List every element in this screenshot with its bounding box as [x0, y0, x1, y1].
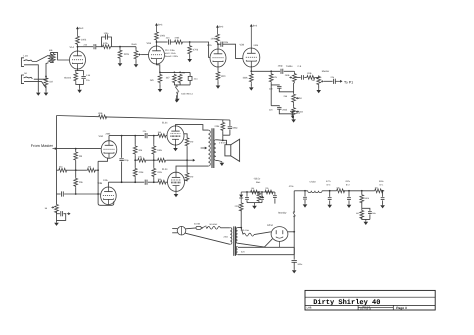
resistor 1.5k grid stopper lower [158, 180, 167, 184]
resistor 100k (V1A plate) [76, 35, 80, 45]
node PI grid/1M [75, 148, 77, 150]
wire HT top to rectifier [238, 228, 243, 234]
ground (master) [318, 86, 320, 89]
svg-text:Plt = 245v: Plt = 245v [165, 49, 176, 52]
svg-text:2.2k 10w: 2.2k 10w [241, 229, 250, 232]
wire rectifier heater [279, 241, 281, 247]
svg-text:mid = 154v: mid = 154v [165, 52, 177, 55]
svg-text:Choke: Choke [310, 180, 317, 183]
resistor 10k (B+3 to B+2) [336, 189, 345, 193]
potentiometer bias trim [258, 191, 260, 193]
ground (gain pot) [135, 63, 137, 64]
svg-text:B+3: B+3 [79, 27, 84, 30]
resistor 1k (screen node to PI) [157, 158, 167, 162]
capacitor 22n (upper PI coupling) [144, 133, 146, 138]
capacitor bias 1 [246, 191, 248, 193]
switch mains [201, 227, 202, 228]
capacitor 120p (bright) [102, 37, 112, 47]
resistor 22k (bias) [265, 190, 274, 194]
capacitor 22n (bass) [271, 105, 279, 108]
heater lines 6.3v [238, 246, 294, 248]
input jack J2 (Hi) [21, 75, 24, 84]
standby line [293, 217, 295, 260]
resistor 100k (divider) [361, 190, 363, 192]
wire from master to V3A grid [53, 148, 56, 150]
diode bias [240, 198, 242, 202]
V2B cathode node [250, 66, 252, 71]
svg-text:Dirty Shirley 40: Dirty Shirley 40 [313, 298, 380, 307]
resistor 4.7k (switched) [172, 74, 176, 83]
triode V2A [210, 49, 226, 67]
power transformer HT secondary [236, 228, 238, 244]
power transformer heater winding [236, 246, 237, 254]
wire V4 plate to OT [176, 125, 209, 131]
resistor 1.5k grid stopper upper [158, 134, 167, 138]
svg-text:B+3: B+3 [158, 24, 163, 27]
ground (jack1 sleeve) [37, 91, 39, 92]
node bias takeoff [240, 227, 242, 229]
wire treble cap to treble pot [284, 70, 295, 72]
resistor 120k (series to master) [304, 76, 306, 78]
svg-text:B+2: B+2 [219, 26, 224, 29]
wire/arrow To P1 [335, 80, 340, 82]
wire J1 sleeve to ground [24, 65, 38, 92]
rectifier GZ34 [271, 227, 288, 242]
resistor 220k (PI lower A) [134, 159, 136, 161]
svg-text:V1B: V1B [147, 42, 152, 45]
svg-text:V3A: V3A [99, 135, 104, 138]
node slope resistor [270, 70, 272, 72]
switch standby [294, 211, 295, 212]
wire to master pot [315, 76, 318, 78]
wire V5 plate to OT [176, 166, 208, 173]
pentode V4 EL34 upper [167, 126, 184, 145]
svg-text:Gain: Gain [132, 43, 138, 46]
svg-text:50-60Hz: 50-60Hz [210, 223, 218, 226]
wire bias feed up [240, 210, 242, 228]
ground (V5 cathode) [175, 190, 177, 193]
svg-text:2017-08-23: 2017-08-23 [360, 308, 372, 311]
wire plug to PT primary bottom [185, 233, 230, 244]
PI lower rail [108, 181, 144, 183]
svg-text:Bias: Bias [256, 181, 260, 184]
svg-text:4-8 Ohm: 4-8 Ohm [219, 141, 227, 144]
node PI tail [75, 169, 77, 171]
capacitor bright (C-B) [301, 75, 303, 80]
resistor 10k (B+2 to B+1) [374, 189, 383, 193]
ground (V1B cathode) [159, 88, 161, 89]
capacitor presence 22n [57, 213, 60, 215]
svg-text:Shared: Shared [64, 77, 72, 80]
resistor 15k (bias) [250, 190, 259, 194]
title block frame [305, 290, 435, 310]
B+ marker above power tubes [176, 95, 178, 100]
svg-text:4A SB: 4A SB [194, 223, 201, 226]
svg-text:Treble: Treble [286, 65, 293, 68]
resistor 2.2k 10w (HT series) [243, 233, 254, 236]
svg-text:Standby: Standby [278, 211, 287, 214]
NFB line (speaker to presence) [57, 116, 230, 121]
node 220k junction [119, 46, 121, 48]
capacitor filter B+1 [382, 191, 384, 197]
ground (first filter) [304, 203, 306, 204]
wire to PT primary [220, 227, 230, 229]
ground (B+2 filter) [348, 204, 350, 205]
svg-text:220n: 220n [223, 41, 229, 44]
wire CF to tone stack [251, 70, 280, 72]
svg-text:1M: 1M [49, 81, 52, 84]
svg-text:120p: 120p [104, 32, 110, 35]
B+2 node [343, 190, 374, 192]
triode V1B [149, 46, 165, 64]
capacitor 22n (V1B coupling) [168, 39, 170, 44]
B+ feed for V1A [77, 29, 79, 35]
V1A cathode network [77, 68, 79, 71]
node mixer junction [189, 41, 191, 43]
V1B cathode network [157, 63, 160, 72]
capacitor 22n (mid) [271, 84, 279, 87]
wire V1A plate node [77, 46, 79, 53]
resistor 220k (NFB tap) [221, 121, 225, 131]
svg-text:820: 820 [221, 75, 226, 78]
resistor 100k (V1B plate) [155, 31, 159, 41]
resistor 100k (V2A plate) [216, 34, 220, 43]
ground (gain switch) [176, 98, 178, 99]
bias rail [241, 191, 275, 193]
svg-text:Low: Low [24, 55, 29, 58]
node tail/cathode [97, 169, 99, 171]
wire to V2B grid [223, 44, 243, 58]
output transformer core [211, 128, 213, 168]
B+ feed for V2A [217, 27, 219, 33]
resistor 1.5k (V1B cathode) [158, 72, 162, 84]
wire NFB vertical [56, 116, 58, 205]
potentiometer Presence 5k [55, 204, 59, 213]
resistor 10k (B+ feed to PI) [137, 158, 146, 162]
ground (V2A cathode) [217, 84, 219, 85]
power transformer primary [230, 228, 232, 245]
wire J1 tip to grid resistors [32, 55, 48, 61]
resistor 2.2k (switched) [178, 74, 182, 83]
wire treble pot to mid pot [293, 83, 296, 94]
potentiometer Bass 250k [292, 107, 296, 117]
node jack2/1M junction [45, 76, 47, 78]
wire grid resistors to V1A grid [50, 53, 69, 60]
B+1 node [381, 190, 384, 192]
svg-text:100k: 100k [81, 39, 87, 42]
resistor 470k (parallel) [102, 45, 112, 49]
resistor 220k (PI lower B) [153, 159, 155, 161]
resistor 100k (cathode follower load) [249, 72, 253, 83]
svg-text:100u: 100u [297, 263, 303, 266]
B+ rail to choke [294, 190, 308, 192]
wire plug to fuse [186, 227, 196, 230]
svg-text:100k: 100k [243, 77, 249, 80]
svg-text:-58.5v: -58.5v [254, 178, 261, 181]
capacitor bias 2 [261, 191, 263, 193]
wire V1B plate node [156, 41, 158, 47]
resistor 470k (series) [170, 41, 173, 43]
capacitor 50u (divider) [362, 208, 370, 211]
pentode V5 EL34 lower [168, 172, 185, 191]
fuse 4A SB [196, 226, 201, 229]
svg-text:LHB: LHB [307, 307, 312, 310]
resistor 220k to ground [119, 47, 121, 49]
wire J2 sleeve down [24, 82, 46, 88]
svg-text:From Master: From Master [31, 143, 54, 148]
wire gain wiper to V1B grid [141, 54, 148, 56]
input jack J1 (Low) [21, 58, 24, 67]
capacitor filter B+2 [348, 191, 350, 197]
arrow B+ to OT center tap [201, 147, 205, 149]
divider bottom to ground [362, 217, 370, 221]
resistor 4.7k (NFB leg) [57, 169, 59, 171]
resistor 1M [44, 77, 48, 86]
potentiometer Mid 25k [292, 93, 296, 103]
resistor 82k (PI plate A) [134, 135, 136, 137]
svg-text:V2B: V2B [240, 44, 245, 47]
triode V3B [101, 187, 117, 205]
wire to V2A grid [184, 42, 211, 58]
node screen rail [186, 159, 188, 161]
wire to gain pot [112, 46, 137, 48]
thermistor inrush [207, 226, 220, 229]
potentiometer Gain 1M [135, 47, 137, 49]
AC mains plug [177, 226, 186, 235]
capacitor 22n (output) [333, 79, 335, 84]
speaker [225, 145, 231, 156]
svg-text:Master: Master [322, 70, 330, 73]
wire NFB to V3B grid with capacitor [57, 193, 61, 195]
wire V3A plate to rail [108, 136, 110, 142]
svg-text:Page #: Page # [396, 306, 407, 310]
svg-text:V2A: V2A [207, 44, 212, 47]
wire HT bottom to rectifier [238, 239, 273, 247]
svg-text:220p: 220p [124, 159, 130, 162]
ground (mixer) [189, 58, 191, 59]
resistor 220k (bias feed) [239, 202, 243, 211]
PI upper rail [109, 135, 144, 137]
wire switched cathode bottom [174, 82, 190, 85]
svg-text:EL34: EL34 [162, 122, 168, 125]
svg-text:680p: 680p [233, 127, 239, 130]
wire OT secondary bottom to ground [216, 160, 222, 161]
wire V3A cathode to tail [98, 158, 107, 162]
svg-text:C-B: C-B [298, 65, 302, 68]
capacitor 220p (plate to plate) [121, 136, 123, 158]
wire mid to bass pot [293, 103, 295, 107]
triode V3A [101, 141, 117, 159]
V2A cathode resistor 820 [217, 66, 219, 70]
svg-text:Gain SW 1a: Gain SW 1a [181, 93, 194, 96]
ground (B+1 filter) [382, 204, 384, 205]
ground (V1A cathode) [79, 84, 81, 88]
resistor 470 screen lower [185, 172, 189, 181]
triode V2B (cathode follower) [243, 48, 260, 67]
resistor R2 68k [52, 53, 56, 63]
resistor 470k to ground [189, 42, 191, 45]
resistor 470 screen upper [184, 134, 187, 137]
power transformer core [233, 226, 235, 255]
B+3 node [322, 190, 336, 192]
ground (presence) [56, 222, 58, 223]
ground (bass pot) [293, 117, 295, 119]
resistor 100k (PI plate B) [153, 135, 155, 137]
output transformer secondary [214, 140, 216, 161]
wire V2A plate node [217, 43, 220, 50]
ground (1M / jack2) [45, 91, 47, 92]
ground (speaker return) [221, 162, 223, 163]
ground (220k) [119, 62, 121, 63]
capacitor 680p (snubber) [229, 120, 231, 126]
B+ feed for V2B [250, 26, 252, 49]
output transformer primary [208, 130, 210, 166]
capacitor 22n (coupling) [93, 44, 95, 49]
resistor 1M (PI grid leak) [75, 149, 77, 151]
switch Gain SW 1a [176, 86, 177, 87]
svg-text:V1A: V1A [70, 46, 75, 49]
ground (V4 cathode) [175, 144, 177, 147]
wire V3B plate to rail [107, 182, 109, 188]
wire tail line to V3B cathode [98, 161, 114, 205]
resistor 10k (tail to cathodes) [87, 168, 96, 172]
capacitor filter B+3 [329, 191, 331, 197]
svg-text:V3B: V3B [98, 182, 103, 185]
wire snubber to speaker line [223, 135, 230, 140]
resistor 1.5k (V1A cathode) [74, 71, 78, 83]
wire master wiper to output [324, 80, 333, 82]
svg-text:250p: 250p [278, 65, 284, 68]
resistor 47k (slope) [270, 71, 272, 72]
capacitor 220n (coupling) [220, 42, 222, 47]
screen rail [186, 147, 188, 173]
ground (reservoir) [293, 269, 295, 270]
choke [308, 191, 322, 193]
svg-text:220k: 220k [124, 53, 130, 56]
svg-text:470k: 470k [193, 49, 199, 52]
B+ feed for V1B [156, 25, 158, 31]
resistor 10k (tail lower) [75, 170, 77, 177]
svg-text:To P1: To P1 [344, 80, 353, 84]
wire to bright network [96, 46, 102, 48]
wire 1M to ground [45, 86, 47, 91]
svg-text:1M: 1M [79, 155, 82, 158]
wire rectifier output [288, 231, 294, 233]
svg-text:GZ34: GZ34 [267, 224, 273, 227]
svg-text:Board = 200v: Board = 200v [165, 55, 179, 58]
resistor R1 68k [48, 53, 52, 63]
capacitor 22u (V1A cathode) [83, 71, 85, 76]
svg-text:EL34: EL34 [162, 168, 168, 171]
triode V1A [70, 51, 86, 69]
ground (CF load) [250, 86, 252, 87]
B+ marker (screens) [290, 110, 295, 112]
capacitor 22n (lower PI coupling) [144, 180, 146, 185]
wire OT secondary top to speaker [216, 140, 227, 145]
capacitor 100u reservoir [292, 260, 297, 262]
wire J2 tip to grid resistors [34, 63, 49, 80]
resistor 100k (NFB) [98, 115, 107, 119]
capacitor bias right [274, 192, 276, 195]
capacitor first filter [304, 190, 306, 192]
ground (B+3 filter) [329, 204, 331, 205]
wire slope column down [270, 83, 272, 106]
arrow to B+ (screen node) [187, 159, 193, 161]
potentiometer Master 1M [317, 76, 321, 86]
capacitor 250p (treble) [280, 69, 282, 74]
node V3B grid line [75, 193, 77, 195]
wire treble wiper to master [294, 76, 300, 78]
svg-text:B+2: B+2 [253, 25, 258, 28]
capacitor 22u (bypass) [189, 72, 191, 76]
resistor 4.7k (divider lower) [361, 208, 363, 210]
bias bottom rail and ground [247, 202, 262, 204]
svg-text:100k: 100k [211, 38, 217, 41]
svg-text:1M: 1M [312, 79, 315, 82]
potentiometer Treble 250k [293, 71, 295, 72]
